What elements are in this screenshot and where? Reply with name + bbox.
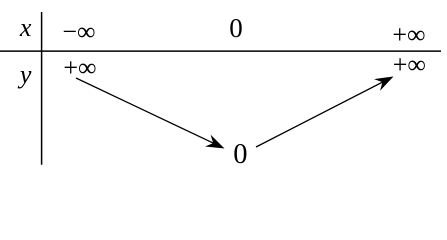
svg-text:−∞: −∞	[62, 17, 95, 46]
svg-text:+∞: +∞	[392, 20, 425, 49]
vertical header separator line	[41, 12, 43, 165]
horizontal row separator line	[0, 50, 441, 52]
increasing variation arrowhead	[374, 77, 394, 91]
decreasing variation arrowhead	[205, 135, 225, 149]
svg-text:0: 0	[229, 13, 243, 43]
decreasing variation arrow shaft	[76, 78, 213, 143]
svg-text:x: x	[19, 13, 32, 42]
svg-text:+∞: +∞	[393, 50, 426, 79]
increasing variation arrow shaft	[256, 82, 382, 147]
svg-text:+∞: +∞	[63, 53, 96, 82]
svg-text:y: y	[17, 60, 32, 89]
svg-text:0: 0	[233, 139, 247, 170]
